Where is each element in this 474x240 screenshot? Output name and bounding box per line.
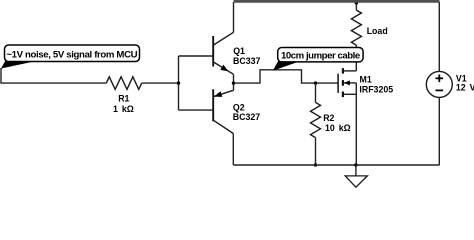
wire R2 top: [315, 83, 317, 102]
svg-text:M1: M1: [360, 75, 372, 85]
voltage source V1: [426, 2, 452, 165]
wire bottom rail: [233, 164, 439, 166]
svg-text:1 kΩ: 1 kΩ: [113, 104, 134, 114]
M1 label: [359, 75, 393, 95]
node Load top junction: [355, 1, 359, 5]
resistor Load: [351, 2, 361, 45]
wire Q2 base: [179, 109, 213, 111]
V1 label: [456, 74, 474, 93]
svg-text:BC327: BC327: [233, 112, 260, 122]
svg-text:Q2: Q2: [233, 103, 245, 113]
node gate/R2 junction: [314, 81, 317, 84]
svg-text:BC337: BC337: [233, 56, 260, 66]
resistor R1: [106, 77, 141, 90]
wire top rail: [234, 0, 440, 3]
svg-text:Load: Load: [367, 26, 388, 36]
wire R2 bottom: [315, 138, 317, 165]
node base junction: [177, 81, 180, 84]
svg-text:R2: R2: [323, 113, 334, 123]
svg-text:R1: R1: [118, 94, 129, 104]
R1 value label: [113, 94, 134, 114]
svg-text:~1V noise, 5V signal from MCU: ~1V noise, 5V signal from MCU: [6, 49, 137, 60]
callout ~1V noise 5V signal from MCU: [1, 45, 140, 69]
svg-text:Q1: Q1: [233, 46, 245, 56]
Q1 label: [233, 46, 260, 66]
node emitter junction: [232, 81, 235, 84]
mosfet M1: [338, 45, 356, 165]
node ground junction: [354, 163, 357, 166]
callout 10cm jumper cable: [273, 48, 363, 71]
wire input from left edge: [1, 68, 106, 83]
transistor Q1: [213, 2, 233, 90]
Q2 label: [233, 103, 260, 123]
wire base link vertical: [178, 56, 180, 110]
R2 value label: [323, 113, 350, 133]
svg-text:10cm jumper cable: 10cm jumper cable: [281, 50, 360, 61]
svg-text:12 V: 12 V: [456, 83, 474, 93]
svg-text:IRF3205: IRF3205: [359, 85, 393, 95]
wire emitter node to gate (with jog): [234, 70, 338, 83]
svg-text:10 kΩ: 10 kΩ: [325, 123, 351, 133]
resistor R2: [311, 102, 321, 137]
wire R1 to base junction: [142, 82, 179, 84]
transistor Q2: [213, 89, 233, 165]
node R2 ground junction: [314, 163, 317, 166]
ground: [345, 165, 367, 187]
wire Q1 base: [179, 55, 213, 57]
